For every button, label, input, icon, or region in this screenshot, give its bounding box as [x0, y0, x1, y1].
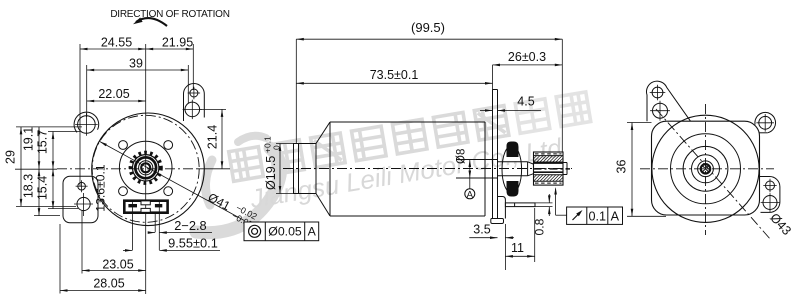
rear top-right ear hole — [759, 116, 772, 129]
rear centerline vertical — [705, 104, 707, 235]
left mounting plate — [63, 176, 98, 223]
svg-text:(99.5): (99.5) — [411, 20, 445, 35]
worm gear outline — [534, 152, 564, 185]
svg-text:2−2.8: 2−2.8 — [174, 218, 206, 233]
circular runout symbol — [573, 213, 581, 221]
shaft tip stub — [563, 162, 567, 164]
watermark chinese company name (stylized strokes) — [229, 92, 591, 181]
rear top-left ear tab — [646, 81, 690, 121]
svg-text:0: 0 — [272, 145, 282, 150]
grommet bottom black — [507, 181, 519, 197]
terminal extension lines — [132, 200, 134, 250]
watermark english company name — [247, 132, 565, 214]
svg-text:39: 39 — [129, 57, 143, 71]
svg-text:3.5: 3.5 — [473, 223, 490, 237]
taper shoulder bottom — [316, 194, 330, 217]
svg-text:21.95: 21.95 — [162, 36, 193, 50]
rear top-left ear large hole — [653, 103, 668, 118]
svg-text:A: A — [467, 190, 474, 201]
front top-right ear small hole — [190, 89, 198, 97]
pilot circle dia41 phantom — [92, 115, 199, 222]
screw hole top-right — [164, 141, 173, 150]
vertical centerline of front view — [145, 44, 147, 250]
svg-text:A: A — [308, 225, 317, 239]
extension line x=193.3 — [192, 44, 194, 90]
rear diagonal centerline — [656, 109, 771, 240]
watermark logo swoosh — [196, 136, 281, 233]
pinion gear teeth ring — [131, 153, 161, 183]
svg-text:15.4: 15.4 — [36, 176, 50, 200]
connector notch top — [141, 201, 150, 205]
dia41 leader line — [100, 142, 244, 221]
runout feature control frame — [567, 207, 623, 224]
horizontal centerline of front view — [57, 168, 198, 170]
worm core lines — [534, 161, 564, 163]
worm thread hatch bottom — [533, 174, 535, 176]
gear inner circle — [139, 161, 153, 175]
svg-text:18.3: 18.3 — [22, 174, 36, 198]
gearhead boss circle — [119, 141, 172, 194]
rear circle r35 — [671, 134, 741, 204]
worm crest band top — [534, 155, 564, 157]
connector housing — [124, 201, 167, 213]
rear outer circle dia43 — [652, 115, 759, 222]
centerline stub right of front view — [198, 168, 230, 170]
flange foot — [491, 219, 504, 224]
front top-left ear hole — [78, 116, 96, 134]
svg-text:Ø0.05: Ø0.05 — [268, 225, 302, 239]
plate large hole — [77, 197, 90, 210]
extension line x=86.7 — [86, 65, 88, 117]
svg-text:13.6±0.1: 13.6±0.1 — [94, 164, 108, 212]
runout leader — [555, 189, 557, 216]
svg-text:0.8: 0.8 — [533, 218, 547, 235]
gear root circle — [133, 155, 159, 181]
left extension horizontals — [16, 126, 82, 128]
front view outer circle — [92, 113, 205, 226]
rear bottom-right ear tab — [760, 177, 780, 213]
rear shaft bore — [701, 164, 710, 173]
svg-text:28.05: 28.05 — [93, 277, 124, 291]
rear bottom-right ear large hole — [763, 196, 777, 210]
screw hole top-left — [119, 141, 128, 150]
rear centerline horizontal — [640, 168, 774, 170]
concentricity feature control frame — [244, 222, 319, 241]
screw hole bottom-left — [119, 187, 128, 196]
concentricity symbol — [249, 225, 261, 237]
plate pivot hole — [78, 182, 86, 190]
svg-text:21.4: 21.4 — [206, 125, 220, 149]
svg-text:A: A — [611, 209, 620, 223]
front top-right ear large hole — [185, 102, 200, 117]
rear circle r14 — [692, 155, 720, 183]
dim dia8 — [469, 160, 471, 179]
svg-text:4.5: 4.5 — [517, 95, 534, 109]
motor can body — [330, 121, 485, 123]
svg-text:19.1: 19.1 — [22, 127, 36, 151]
rear top-left ear small hole — [652, 87, 663, 98]
rear hub ring — [698, 161, 714, 177]
front top-left ear tab outline — [74, 112, 99, 132]
svg-text:29: 29 — [4, 150, 18, 164]
extension line x=80 — [79, 44, 81, 186]
dia41 tolerance label — [204, 189, 259, 230]
svg-text:0.1: 0.1 — [589, 209, 607, 223]
datum A circle — [465, 189, 475, 199]
rear bottom-right ear small hole — [766, 181, 775, 190]
front flange plate — [492, 90, 494, 220]
extension line x=188.3 — [187, 65, 189, 103]
worm crest band bottom — [534, 180, 564, 182]
svg-text:23.05: 23.05 — [102, 257, 133, 271]
motor shaft — [456, 159, 498, 161]
grommet top black — [507, 142, 519, 158]
svg-text:15.7: 15.7 — [36, 130, 50, 154]
svg-text:DIRECTION OF ROTATION: DIRECTION OF ROTATION — [110, 9, 229, 20]
bearing boss ellipse — [502, 145, 522, 193]
svg-text:9.55±0.1: 9.55±0.1 — [168, 236, 218, 251]
svg-text:11: 11 — [511, 241, 524, 255]
connector notch bottom — [141, 208, 150, 212]
gear bore — [141, 163, 150, 172]
rear end cap — [294, 144, 317, 194]
screw hole bottom-right — [164, 187, 173, 196]
dim dia19.5 — [276, 143, 294, 145]
svg-text:26±0.3: 26±0.3 — [508, 50, 546, 64]
rotation arrow (curved) — [136, 18, 167, 26]
svg-text:73.5±0.1: 73.5±0.1 — [370, 68, 419, 82]
connector terminal left — [128, 204, 137, 207]
side view centerline — [283, 168, 572, 170]
svg-text:24.55: 24.55 — [101, 36, 132, 50]
svg-text:22.05: 22.05 — [98, 87, 129, 101]
front top-right ear tab outline — [184, 84, 205, 121]
connector terminal right — [155, 204, 162, 207]
taper shoulder top — [316, 122, 330, 144]
svg-text:Ø19.5: Ø19.5 — [264, 156, 278, 190]
shaft step cone — [527, 162, 529, 176]
svg-text:Ø8: Ø8 — [456, 149, 468, 164]
rear housing outline — [652, 121, 760, 215]
mounting lug block — [498, 197, 506, 219]
terminal tab plate — [505, 203, 535, 207]
gear hub ring — [135, 157, 156, 178]
rear top-right ear tab — [755, 112, 776, 132]
rear circle r22.4 — [683, 146, 728, 191]
svg-text:36: 36 — [615, 160, 629, 174]
worm thread hatch top — [533, 155, 535, 157]
